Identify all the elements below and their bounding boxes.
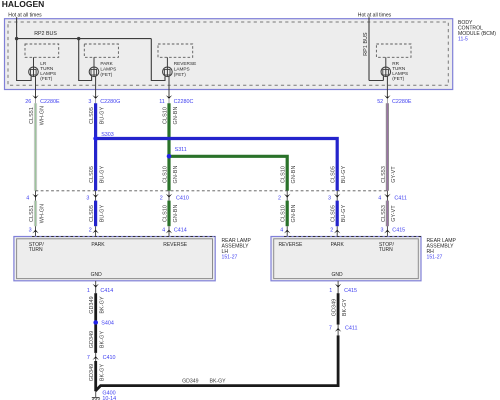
wire CLS05 BU-GY from BCM 3 down <box>94 103 97 191</box>
svg-text:BK-GY: BK-GY <box>100 296 106 314</box>
internal control dashed box for park lamps FET driver <box>84 44 118 57</box>
svg-text:LAMPS: LAMPS <box>100 66 116 71</box>
svg-text:151-27: 151-27 <box>222 255 238 261</box>
BCM inner dashed boundary <box>8 22 448 85</box>
label REVERSE LAMPS (FET) <box>174 61 196 77</box>
wire: RP2 BUS horizontal <box>17 38 152 40</box>
svg-text:Hot at all times: Hot at all times <box>358 12 392 18</box>
svg-text:C411: C411 <box>394 196 407 202</box>
svg-text:7: 7 <box>329 325 332 331</box>
svg-text:PARK: PARK <box>100 61 113 66</box>
svg-text:3: 3 <box>86 196 89 202</box>
wire GD349 BK-GY horizontal run to RH <box>95 386 338 392</box>
connector row inline pin 4 <box>26 191 38 202</box>
connector C2280C pin 11 <box>159 95 193 105</box>
junction dot on RP2 bus at feed <box>15 37 18 40</box>
label PARK LAMPS (FET) <box>100 61 116 77</box>
svg-text:GND: GND <box>91 272 103 278</box>
wire GD349 BK-GY to ground G400 <box>94 361 97 391</box>
connector row inline pin 3 <box>328 191 340 202</box>
wire: control line into LR turn lamps FET driver <box>33 57 35 76</box>
svg-text:CLS53: CLS53 <box>381 166 387 183</box>
transistor park lamps FET driver symbol <box>89 67 99 77</box>
connector row C411 pin 4 <box>378 191 407 202</box>
label G400 10-14 <box>102 390 116 400</box>
svg-text:CLS10: CLS10 <box>163 166 169 183</box>
svg-text:BK-GY: BK-GY <box>100 331 106 349</box>
svg-text:CLS51: CLS51 <box>29 205 35 222</box>
connector lamp pin pin 2 <box>89 226 99 239</box>
svg-text:11: 11 <box>159 99 165 105</box>
svg-text:GN-BN: GN-BN <box>173 107 179 125</box>
svg-text:CLS05: CLS05 <box>89 107 95 124</box>
svg-text:GND: GND <box>331 272 343 278</box>
svg-text:C2280C: C2280C <box>174 99 194 105</box>
svg-text:CLS10: CLS10 <box>163 205 169 222</box>
svg-text:11-5: 11-5 <box>458 37 468 43</box>
svg-text:TURN: TURN <box>379 247 393 253</box>
svg-text:GD349: GD349 <box>89 296 95 314</box>
wire CLS53 GY-VT from BCM 52 down <box>386 103 389 191</box>
internal control dashed box for RR turn lamps FET driver <box>376 44 411 57</box>
wire CLS10 GN-BN lower segment <box>167 201 170 227</box>
svg-text:BK-GY: BK-GY <box>100 364 106 382</box>
svg-text:CLS05: CLS05 <box>331 166 337 183</box>
connector lamp pin pin 2 <box>330 226 340 239</box>
svg-text:REVERSE: REVERSE <box>278 242 303 248</box>
svg-text:C2280G: C2280G <box>100 99 120 105</box>
svg-text:WH-GN: WH-GN <box>39 204 45 223</box>
wire: left battery feed into BCM <box>16 17 18 38</box>
svg-text:52: 52 <box>377 99 383 105</box>
svg-text:(FET): (FET) <box>174 72 186 77</box>
wire CLS05 BU-GY branch from S303 to right <box>96 139 338 191</box>
label REAR LAMP ASSEMBLY LH 151-27 <box>222 238 252 261</box>
wire CLS10 GN-BN branch from S311 to right <box>169 156 287 191</box>
svg-text:C415: C415 <box>344 288 357 294</box>
label LR TURN LAMPS (FET) <box>40 61 56 81</box>
transistor reverse lamps FET driver symbol <box>163 67 173 77</box>
svg-text:(FET): (FET) <box>100 72 112 77</box>
svg-text:C411: C411 <box>345 325 358 331</box>
svg-text:4: 4 <box>162 228 165 234</box>
svg-text:2: 2 <box>330 228 333 234</box>
svg-text:LAMPS: LAMPS <box>174 66 190 71</box>
connector row C410 pin 2 <box>160 191 189 202</box>
wire CLS05 BU-GY lower segment <box>336 201 339 227</box>
svg-text:BU-GY: BU-GY <box>99 204 105 222</box>
harness boundary dashed line <box>36 190 389 192</box>
svg-text:REVERSE: REVERSE <box>163 242 188 248</box>
svg-text:GD349: GD349 <box>89 331 95 349</box>
connector C2280E pin 26 <box>25 95 60 105</box>
connector C2280E pin 52 <box>377 95 412 105</box>
svg-text:RP2 BUS: RP2 BUS <box>34 31 57 37</box>
connector C410 pin 7 ground LH <box>87 353 116 361</box>
connector C415 pin 3 <box>381 226 406 239</box>
svg-text:GN-BN: GN-BN <box>291 205 297 223</box>
wire CLS05 BU-GY lower segment <box>94 201 97 227</box>
svg-text:C410: C410 <box>176 196 189 202</box>
svg-text:TURN: TURN <box>29 247 43 253</box>
svg-text:GN-BN: GN-BN <box>173 166 179 184</box>
transistor RR turn lamps FET driver symbol <box>381 67 391 77</box>
connector C414 pin 4 <box>162 226 187 239</box>
internal control dashed box for LR turn lamps FET driver <box>25 44 59 57</box>
splice S404 <box>93 320 98 325</box>
wire: right battery feed RP1 into BCM <box>368 17 370 80</box>
ground G400 <box>92 391 100 400</box>
svg-text:GN-BN: GN-BN <box>173 205 179 223</box>
connector C414 pin 1 ground LH <box>87 281 113 294</box>
wire: bus drop to RR turn lamps FET driver <box>369 76 383 80</box>
wire: control line into RR turn lamps FET driver <box>385 57 387 76</box>
wire: output of park lamps FET driver to BCM connector <box>95 76 97 98</box>
wire CLS51 WH-GN from BCM 26 down <box>34 103 37 191</box>
svg-text:HALOGEN: HALOGEN <box>2 0 45 9</box>
svg-text:PARK: PARK <box>331 242 345 248</box>
svg-text:4: 4 <box>280 228 283 234</box>
svg-text:(FET): (FET) <box>392 76 404 81</box>
wire: bus drop to reverse lamps FET driver <box>151 39 165 81</box>
svg-text:1: 1 <box>329 288 332 294</box>
BCM label BODY CONTROL MODULE (BCM) 11-5 <box>458 20 496 43</box>
svg-text:GY-VT: GY-VT <box>391 205 397 222</box>
connector row inline pin 2 <box>278 191 290 202</box>
svg-text:26: 26 <box>25 99 31 105</box>
connector C415 pin 1 ground RH <box>329 281 357 294</box>
svg-text:CLS05: CLS05 <box>89 166 95 183</box>
splice S303 <box>93 136 98 141</box>
svg-text:WH-GN: WH-GN <box>39 106 45 125</box>
svg-text:GD349: GD349 <box>89 364 95 382</box>
wire CLS53 GY-VT lower segment <box>386 201 389 227</box>
label RR TURN LAMPS (FET) <box>392 61 408 81</box>
svg-text:Hot at all times: Hot at all times <box>8 12 42 18</box>
wire: control line into reverse lamps FET driver <box>166 57 168 76</box>
svg-text:(FET): (FET) <box>40 76 52 81</box>
svg-text:CLS05: CLS05 <box>331 205 337 222</box>
svg-text:151-27: 151-27 <box>427 255 443 261</box>
internal control dashed box for reverse lamps FET driver <box>158 44 193 57</box>
svg-text:BU-GY: BU-GY <box>341 204 347 222</box>
wire CLS51 WH-GN lower segment <box>34 201 37 227</box>
svg-text:3: 3 <box>29 228 32 234</box>
wire: bus drop to LR turn lamps FET driver <box>17 39 32 81</box>
wire GD349 BK-GY from C415 <box>337 293 340 324</box>
svg-text:BU-GY: BU-GY <box>99 165 105 183</box>
svg-text:BK-GY: BK-GY <box>210 378 227 384</box>
rear lamp assembly RH box <box>271 237 421 281</box>
svg-text:REVERSE: REVERSE <box>174 61 196 66</box>
svg-text:C414: C414 <box>174 228 187 234</box>
svg-text:GD349: GD349 <box>332 299 338 317</box>
wire: output of LR turn lamps FET driver to BCM connector <box>35 76 37 98</box>
svg-text:3: 3 <box>381 228 384 234</box>
svg-text:S311: S311 <box>175 147 187 153</box>
svg-text:RP1 BUS: RP1 BUS <box>363 32 369 56</box>
svg-text:2: 2 <box>89 228 92 234</box>
svg-text:C2280E: C2280E <box>392 99 412 105</box>
svg-text:CLS10: CLS10 <box>281 205 287 222</box>
svg-text:4: 4 <box>378 196 381 202</box>
svg-text:10-14: 10-14 <box>102 396 116 400</box>
wire: output of reverse lamps FET driver to BCM connector <box>168 76 170 98</box>
svg-text:C2280E: C2280E <box>40 99 60 105</box>
junction dot on RP2 bus at park drop <box>77 37 80 40</box>
wire CLS10 GN-BN from BCM 11 down <box>167 103 170 191</box>
svg-text:CLS10: CLS10 <box>163 107 169 124</box>
svg-text:3: 3 <box>328 196 331 202</box>
svg-text:2: 2 <box>160 196 163 202</box>
rear lamp assembly LH box <box>14 237 215 281</box>
svg-text:BU-GY: BU-GY <box>341 165 347 183</box>
svg-text:C414: C414 <box>100 288 113 294</box>
svg-text:CLS53: CLS53 <box>381 205 387 222</box>
svg-text:4: 4 <box>26 196 29 202</box>
connector C411 pin 7 ground RH <box>329 325 358 336</box>
svg-text:PARK: PARK <box>91 242 105 248</box>
svg-text:CLS51: CLS51 <box>29 107 35 124</box>
lamp LH STOP/TURN <box>29 242 45 253</box>
svg-text:GD349: GD349 <box>182 378 199 384</box>
BCM U1 box Body Control Module <box>5 19 453 90</box>
svg-text:7: 7 <box>87 355 90 361</box>
wire CLS10 GN-BN lower segment <box>286 201 289 227</box>
svg-text:CLS05: CLS05 <box>89 205 95 222</box>
wire GD349 BK-GY from C414 <box>94 293 97 320</box>
connector C2280G pin 3 <box>88 95 120 105</box>
svg-text:1: 1 <box>87 288 90 294</box>
svg-text:CLS10: CLS10 <box>281 166 287 183</box>
svg-text:S404: S404 <box>101 320 114 326</box>
wire GD349 BK-GY RH down to run <box>337 335 340 387</box>
svg-text:2: 2 <box>278 196 281 202</box>
svg-text:GY-VT: GY-VT <box>391 166 397 183</box>
splice S311 <box>167 154 172 159</box>
svg-text:GN-BN: GN-BN <box>291 166 297 184</box>
connector row inline pin 3 <box>86 191 98 202</box>
wire: control line into park lamps FET driver <box>93 57 95 76</box>
lamp RH STOP/TURN <box>379 242 395 253</box>
transistor LR turn lamps FET driver symbol <box>29 67 39 77</box>
wire: output of RR turn lamps FET driver to BCM connector <box>386 76 388 98</box>
wire: bus drop to park lamps FET driver <box>79 39 92 81</box>
connector lamp pin pin 4 <box>280 226 290 239</box>
wire GD349 BK-GY below S404 <box>94 325 97 353</box>
svg-text:BU-GY: BU-GY <box>99 106 105 124</box>
svg-text:BK-GY: BK-GY <box>342 299 348 317</box>
svg-text:C410: C410 <box>103 355 116 361</box>
svg-text:S303: S303 <box>101 132 114 138</box>
svg-text:C415: C415 <box>392 228 405 234</box>
label GD349 BK-GY horizontal <box>182 378 226 384</box>
connector lamp pin pin 3 <box>29 226 39 239</box>
label REAR LAMP ASSEMBLY RH 151-27 <box>427 238 457 261</box>
svg-text:3: 3 <box>88 99 91 105</box>
